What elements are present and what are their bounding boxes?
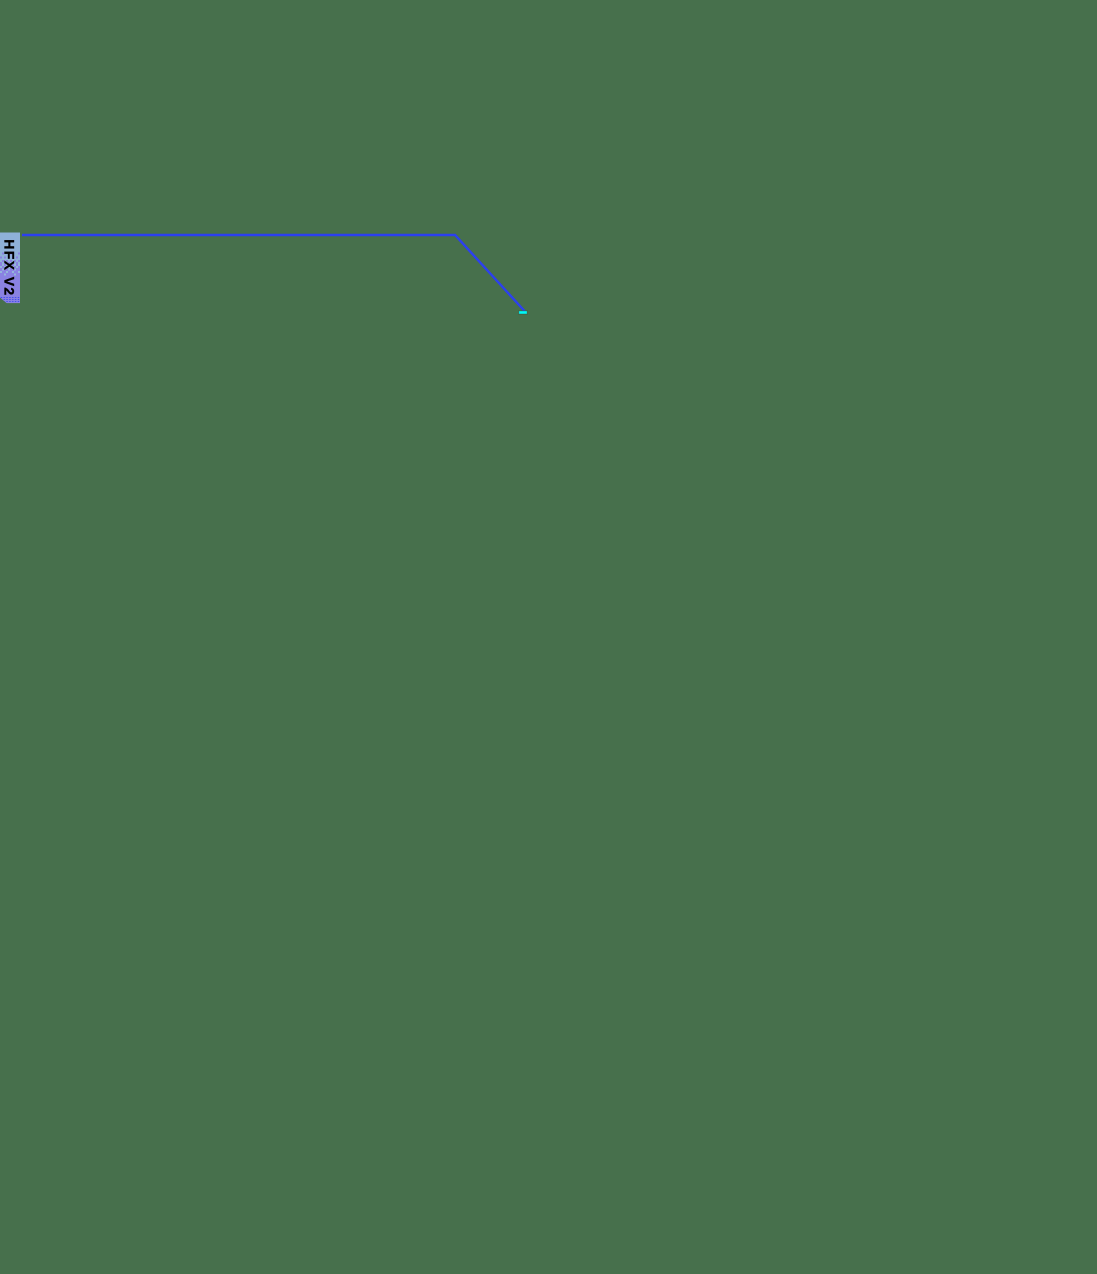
label HFX V2 ribbon	[0, 233, 20, 304]
route line HFX V2	[22, 235, 525, 312]
svg-text:HFX V2: HFX V2	[2, 239, 18, 296]
endpoint marker	[519, 311, 528, 314]
